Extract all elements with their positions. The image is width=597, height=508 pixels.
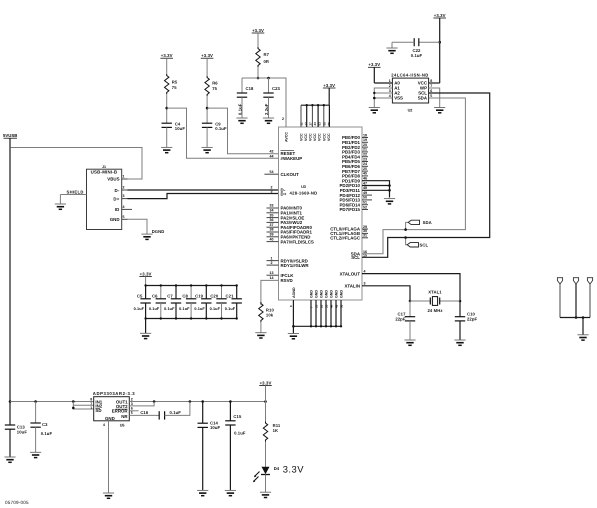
pin CTL1/#FLAGB (30): [330, 229, 368, 236]
svg-text:CLKOUT: CLKOUT: [281, 172, 300, 177]
svg-text:34: 34: [270, 209, 274, 213]
svg-text:DGND: DGND: [152, 229, 165, 234]
ground C3: [30, 452, 41, 457]
pin PB6/FD6 (24): [342, 162, 368, 169]
pin CTL0/#FLAGA (29): [330, 225, 368, 232]
capacitor C19: [194, 284, 211, 319]
svg-text:GND: GND: [110, 217, 120, 222]
pin PA1/#INT1 (34): [267, 209, 303, 216]
pin GND 1: [309, 290, 313, 328]
svg-text:10uF: 10uF: [210, 425, 221, 430]
wire VCC bus: [301, 104, 329, 106]
wire OUT1 3.3V rail: [129, 400, 267, 403]
ground C10: [454, 340, 465, 345]
wire U2 A1/A2/VSS tie to ground: [373, 88, 392, 108]
wire VCC pin 6: [328, 105, 330, 127]
svg-text:GND: GND: [340, 290, 344, 298]
wire VCC pin 3: [311, 104, 313, 127]
pin PA7/#FLD/SLCS (40): [267, 237, 314, 244]
ground C22: [386, 48, 397, 53]
power +3.3V (R11): [259, 380, 272, 401]
pin PB0/FD0 (18): [342, 133, 368, 140]
capacitor C13: [5, 402, 28, 458]
svg-text:38: 38: [270, 228, 274, 232]
capacitor C22: [392, 38, 440, 58]
svg-text:SDA: SDA: [418, 96, 428, 101]
pin CLKOUT (54): [264, 170, 299, 177]
pin PD1/FD9 (46): [342, 177, 367, 184]
svg-text:54: 54: [270, 170, 274, 174]
wire LED to ground: [265, 475, 267, 493]
wire 5VUSB to VBUS: [10, 148, 142, 180]
svg-text:25: 25: [363, 167, 367, 171]
svg-text:75: 75: [212, 86, 217, 91]
svg-text:SHIELD: SHIELD: [67, 190, 84, 195]
ground R10: [255, 333, 266, 338]
svg-text:0.1uF: 0.1uF: [194, 307, 205, 311]
ground DGND: [141, 229, 164, 239]
pin GND 7: [339, 290, 343, 328]
pin GND 6: [334, 290, 338, 328]
svg-text:1: 1: [90, 406, 92, 410]
svg-text:VCC: VCC: [304, 133, 308, 141]
pin CTL2/#FLAGC (31): [330, 234, 368, 241]
ground U2 WP: [434, 108, 445, 113]
power +3.3V (R5): [160, 53, 173, 74]
ground C4: [161, 147, 172, 152]
svg-text:R6: R6: [212, 81, 218, 86]
svg-text:7: 7: [430, 84, 432, 88]
svg-text:56: 56: [339, 304, 343, 308]
svg-text:0.1uF: 0.1uF: [149, 307, 160, 311]
wire R7 to AVCC net: [257, 67, 260, 79]
svg-text:49: 49: [363, 191, 367, 195]
svg-text:XTALOUT: XTALOUT: [340, 271, 361, 276]
svg-text:55: 55: [322, 122, 326, 126]
resistor R6: [205, 76, 218, 96]
svg-text:27: 27: [309, 122, 313, 126]
ground shield: [55, 204, 66, 209]
svg-text:1: 1: [271, 256, 273, 260]
ground C23: [263, 118, 274, 123]
power +3.3V (C22/U2 VCC): [429, 13, 446, 83]
svg-text:22pF: 22pF: [395, 317, 406, 322]
svg-text:AGND: AGND: [292, 287, 296, 298]
wire PD1/FD9 to ground cluster: [362, 181, 390, 198]
wire junction R5/C4 to U3 #WAKEUP: [167, 108, 279, 158]
svg-text:C5: C5: [137, 294, 143, 299]
svg-text:2: 2: [123, 186, 125, 190]
svg-text:2: 2: [389, 84, 391, 88]
pin PD6/FD14 (51): [340, 201, 369, 208]
ground cap bank: [140, 333, 151, 338]
svg-text:0.1uF: 0.1uF: [210, 307, 221, 311]
svg-text:24LC64-I/SN-ND: 24LC64-I/SN-ND: [391, 72, 428, 77]
capacitor C8: [179, 284, 196, 319]
svg-text:3: 3: [131, 402, 133, 406]
wire U5 GND to ground: [108, 421, 110, 493]
svg-text:GND: GND: [310, 290, 314, 298]
svg-text:0.1uF: 0.1uF: [170, 410, 182, 415]
svg-text:VBUS: VBUS: [107, 177, 119, 182]
svg-text:D+: D+: [281, 192, 287, 197]
svg-text:RSVD: RSVD: [281, 278, 293, 283]
svg-text:NR: NR: [121, 414, 128, 419]
pin PB2/FD2 (20): [342, 143, 368, 150]
svg-text:GND: GND: [315, 290, 319, 298]
wire D- J1 to U3: [128, 189, 279, 191]
pin numbers VCC (rotated): [299, 122, 331, 126]
svg-text:PD7/FD15: PD7/FD15: [340, 207, 361, 212]
svg-text:22: 22: [363, 153, 367, 157]
pin PD5/FD13 (50): [340, 196, 373, 203]
svg-text:49: 49: [334, 304, 338, 308]
capacitor C7: [164, 284, 181, 319]
pin RDY0/#SLRD (1): [267, 256, 308, 263]
svg-text:C23: C23: [272, 86, 281, 91]
capacitor C23: [263, 78, 280, 118]
ground U2 left: [369, 108, 380, 113]
pin GND 4: [324, 290, 328, 328]
svg-text:39: 39: [270, 233, 274, 237]
svg-text:4: 4: [389, 94, 391, 98]
label figure number 05709-005: [5, 500, 29, 505]
svg-text:XTALIN: XTALIN: [344, 284, 360, 289]
pin GND 2: [314, 290, 318, 328]
pin PB3/FD3 (21): [342, 148, 368, 155]
connector test pin 1: [557, 278, 562, 318]
svg-text:R7: R7: [264, 52, 270, 57]
capacitor C17: [395, 301, 415, 340]
svg-text:44: 44: [270, 154, 274, 158]
pin IFCLK (13): [267, 271, 295, 278]
svg-text:3: 3: [123, 194, 125, 198]
svg-text:51: 51: [363, 201, 367, 205]
svg-text:U3: U3: [301, 185, 306, 189]
IC U2 24LC64: [389, 72, 432, 112]
pin 1 VBUS stub: [122, 175, 128, 179]
pin RSVD (14): [270, 276, 293, 283]
svg-text:0.1uF: 0.1uF: [215, 126, 227, 131]
svg-text:VCC: VCC: [299, 133, 303, 141]
power +3.3V (U2 A0): [368, 62, 392, 83]
ground C18: [236, 118, 247, 123]
svg-text:4: 4: [123, 205, 125, 209]
wire VCC pin 2: [306, 104, 308, 127]
svg-text:44: 44: [329, 304, 333, 308]
pin PA6/#PKTEND (39): [267, 233, 311, 240]
wire cap bank to ground: [145, 319, 147, 334]
svg-text:VCC: VCC: [309, 133, 313, 141]
svg-text:2: 2: [282, 117, 284, 121]
ground LED: [260, 492, 271, 497]
svg-text:ADP3303AR2-3.3: ADP3303AR2-3.3: [93, 391, 135, 396]
wire VCC pin 5: [323, 104, 325, 127]
pin PA3/#WU2 (36): [267, 218, 303, 225]
power +3.3V (cap bank): [139, 271, 152, 285]
svg-text:GND: GND: [335, 290, 339, 298]
svg-text:C16: C16: [140, 410, 149, 415]
svg-text:428-1669-ND: 428-1669-ND: [290, 191, 318, 196]
svg-text:SCL: SCL: [351, 255, 360, 260]
svg-text:U5: U5: [120, 423, 125, 427]
svg-text:36: 36: [270, 218, 274, 222]
svg-text:37: 37: [270, 223, 274, 227]
wire AVCC net horizontal: [242, 77, 286, 116]
svg-text:0.1uF: 0.1uF: [41, 431, 53, 436]
pin labels VCC (rotated): [299, 133, 331, 141]
ground test pins: [577, 335, 588, 340]
pin GND 3: [319, 290, 323, 328]
svg-text:C8: C8: [182, 294, 188, 299]
pin PA0/#INT0 (33): [267, 204, 303, 211]
svg-text:0.1uF: 0.1uF: [411, 53, 423, 58]
connector test pin 3: [587, 278, 592, 318]
svg-text:3.3V: 3.3V: [283, 464, 305, 475]
svg-text:VCC: VCC: [318, 133, 322, 141]
connector J1 USB-MINI-B: [87, 165, 122, 230]
resistor R11: [263, 422, 281, 442]
svg-text:C18: C18: [246, 86, 255, 91]
svg-text:#WAKEUP: #WAKEUP: [281, 156, 303, 161]
svg-text:75: 75: [172, 85, 177, 90]
node 5VUSB label: [3, 133, 17, 148]
svg-text:42: 42: [270, 150, 274, 154]
svg-text:10uF: 10uF: [17, 429, 28, 434]
svg-text:46: 46: [363, 177, 367, 181]
wire 5V rail into regulator: [10, 400, 94, 403]
svg-text:14: 14: [270, 276, 274, 280]
svg-text:VCC: VCC: [322, 133, 326, 141]
wire IN1/IN2/SD tie: [72, 402, 94, 410]
pin PB1/FD1 (19): [342, 138, 368, 145]
svg-text:35: 35: [270, 213, 274, 217]
ground C17: [404, 340, 415, 345]
power +3.3V (R7): [252, 28, 265, 47]
svg-text:D+: D+: [113, 196, 119, 201]
svg-text:0.1uF: 0.1uF: [179, 307, 190, 311]
svg-text:5: 5: [131, 411, 133, 415]
pin AVCC: [282, 116, 289, 143]
node SHIELD: [60, 190, 86, 204]
pin 5 GND stub: [122, 215, 128, 219]
power +3.3V (VCC bundle): [323, 83, 336, 105]
svg-text:5VUSB: 5VUSB: [3, 133, 17, 138]
pin PD0/FD8 (45): [342, 172, 368, 179]
svg-text:C15: C15: [233, 414, 242, 419]
pin PD2/FD10 (47): [340, 181, 368, 188]
wire junction R6/C9 to U3 RESET: [207, 108, 278, 154]
svg-text:4: 4: [364, 269, 366, 273]
ground C14: [197, 490, 208, 495]
svg-text:XTAL1: XTAL1: [428, 290, 442, 295]
crystal XTAL1 24 MHz: [410, 290, 460, 313]
svg-text:24: 24: [363, 162, 367, 166]
svg-text:53: 53: [318, 122, 322, 126]
capacitor C16: [129, 402, 190, 420]
svg-text:0.1uF: 0.1uF: [225, 307, 236, 311]
capacitor C10: [455, 301, 478, 340]
pin PA4/FIFOADR0 (37): [267, 223, 313, 230]
svg-text:R5: R5: [172, 79, 178, 84]
svg-text:43: 43: [313, 122, 317, 126]
svg-text:RDY1/#SLWR: RDY1/#SLWR: [281, 263, 310, 268]
svg-text:10k: 10k: [266, 313, 274, 318]
wire R5 to C4: [165, 94, 168, 123]
svg-text:5: 5: [123, 215, 125, 219]
svg-text:21: 21: [363, 148, 367, 152]
pin SCL (15): [351, 253, 367, 260]
wire OUT2 tie: [129, 402, 154, 406]
pin RDY1/#SLWR (2): [267, 261, 310, 268]
pin PD7/FD15 (52): [340, 205, 369, 212]
capacitor C9: [202, 121, 227, 147]
capacitor C21: [225, 284, 242, 319]
pin PA5/FIFOADR1 (38): [267, 228, 313, 235]
capacitor C5: [134, 284, 151, 319]
capacitor C18: [237, 78, 254, 118]
svg-text:10uF: 10uF: [175, 126, 186, 131]
capacitor C3: [30, 402, 52, 453]
wire 5VUSB left rail down to regulator input: [9, 148, 12, 403]
wire SCL net U3 to U2: [362, 93, 490, 257]
svg-text:GND: GND: [320, 290, 324, 298]
pin PD4/FD12 (49): [340, 191, 373, 198]
wire J1 GND to DGND: [128, 219, 148, 234]
pin XTALIN (3): [344, 282, 365, 289]
ground C15: [225, 490, 236, 495]
svg-text:VCC: VCC: [313, 133, 317, 141]
svg-text:35: 35: [324, 304, 328, 308]
resistor R7: [256, 47, 270, 67]
wire PD2/FD10 to ground cluster: [362, 184, 391, 187]
pin #WAKEUP (44): [270, 154, 303, 160]
svg-text:C7: C7: [167, 294, 173, 299]
svg-text:10: 10: [314, 304, 318, 308]
svg-text:VSS: VSS: [394, 96, 403, 101]
svg-text:3: 3: [364, 282, 366, 286]
ground C13: [4, 457, 15, 462]
svg-text:24 MHz: 24 MHz: [427, 308, 442, 313]
regulator U5 ADP3303AR2-3.3: [90, 391, 135, 427]
svg-text:6: 6: [131, 406, 133, 410]
LED D4: [253, 466, 280, 482]
pin GND 5: [329, 290, 333, 328]
svg-text:CTL2/#FLAGC: CTL2/#FLAGC: [330, 236, 361, 241]
wire test pins bus: [560, 316, 590, 335]
svg-text:56: 56: [327, 122, 331, 126]
svg-text:C3: C3: [42, 422, 48, 427]
pin D-: [271, 186, 286, 193]
svg-text:17: 17: [304, 122, 308, 126]
svg-text:45: 45: [363, 172, 367, 176]
svg-text:USB-MINI-B: USB-MINI-B: [91, 170, 118, 175]
svg-text:2: 2: [271, 261, 273, 265]
svg-text:GND: GND: [325, 290, 329, 298]
svg-text:C19: C19: [195, 294, 204, 299]
svg-text:D4: D4: [274, 466, 280, 471]
label 3.3V: [283, 464, 305, 475]
svg-text:22pF: 22pF: [467, 317, 478, 322]
svg-text:0.1uF: 0.1uF: [234, 431, 246, 436]
pin D+: [271, 189, 287, 196]
wire SDA net U3 to U2: [362, 98, 465, 254]
svg-text:0R: 0R: [264, 59, 270, 64]
svg-text:AVCC: AVCC: [285, 132, 289, 142]
svg-text:1K: 1K: [273, 428, 279, 433]
pin RESET (42): [270, 150, 296, 157]
wire AGND to ground: [292, 300, 295, 334]
capacitor C6: [149, 284, 166, 319]
pin 3 D+ stub: [122, 194, 128, 198]
svg-text:D-: D-: [114, 188, 119, 193]
svg-text:U2: U2: [408, 108, 413, 112]
svg-text:48: 48: [363, 186, 367, 190]
wire rail to R11: [265, 402, 267, 422]
pin PB5/FD5 (23): [342, 157, 368, 164]
svg-text:23: 23: [363, 157, 367, 161]
svg-text:VCC: VCC: [327, 133, 331, 141]
svg-text:J1: J1: [102, 165, 106, 169]
svg-text:40: 40: [270, 237, 274, 241]
svg-text:C20: C20: [210, 294, 219, 299]
connector tag SDA: [404, 220, 431, 231]
wire VCC pin 4: [317, 104, 319, 127]
svg-text:ID: ID: [115, 207, 120, 212]
wire ERROR stub: [129, 410, 138, 412]
connector test pin 2: [573, 278, 578, 319]
svg-text:C6: C6: [152, 294, 158, 299]
svg-text:19: 19: [363, 138, 367, 142]
svg-text:3: 3: [389, 89, 391, 93]
svg-text:18: 18: [363, 133, 367, 137]
connector tag SCL: [404, 236, 428, 247]
wire VCC pin 1: [300, 105, 302, 127]
svg-text:0.1uF: 0.1uF: [164, 307, 175, 311]
svg-text:52: 52: [363, 205, 367, 209]
capacitor C20: [210, 284, 227, 319]
pin SDA (16): [351, 250, 367, 257]
resistor R5: [165, 74, 178, 94]
svg-text:33: 33: [270, 204, 274, 208]
pin PB7/FD7 (25): [342, 167, 368, 174]
wire PD3/FD11 to ground cluster: [362, 189, 391, 192]
wire R10 to ground: [260, 322, 262, 333]
wire U2 WP to ground: [429, 88, 440, 108]
capacitor C4: [162, 121, 186, 147]
resistor R10: [259, 302, 275, 322]
ground data pins cluster: [384, 199, 395, 204]
svg-text:47: 47: [363, 181, 367, 185]
svg-text:C21: C21: [226, 294, 235, 299]
pin AGND: [289, 287, 296, 307]
svg-text:31: 31: [363, 234, 367, 238]
svg-text:11: 11: [299, 122, 303, 126]
svg-text:13: 13: [270, 271, 274, 275]
svg-text:5: 5: [430, 94, 432, 98]
pin XTALOUT (4): [340, 269, 366, 276]
wire XTALOUT to crystal: [362, 274, 461, 303]
svg-text:8: 8: [430, 79, 432, 83]
svg-text:0.1uF: 0.1uF: [134, 307, 145, 311]
svg-text:GND: GND: [330, 290, 334, 298]
svg-text:05709-005: 05709-005: [5, 500, 29, 505]
pin PB4/FD4 (22): [342, 153, 368, 160]
svg-text:29: 29: [363, 225, 367, 229]
svg-text:SCL: SCL: [420, 243, 429, 248]
wire GND bus under U3: [293, 325, 341, 327]
svg-text:20: 20: [363, 143, 367, 147]
